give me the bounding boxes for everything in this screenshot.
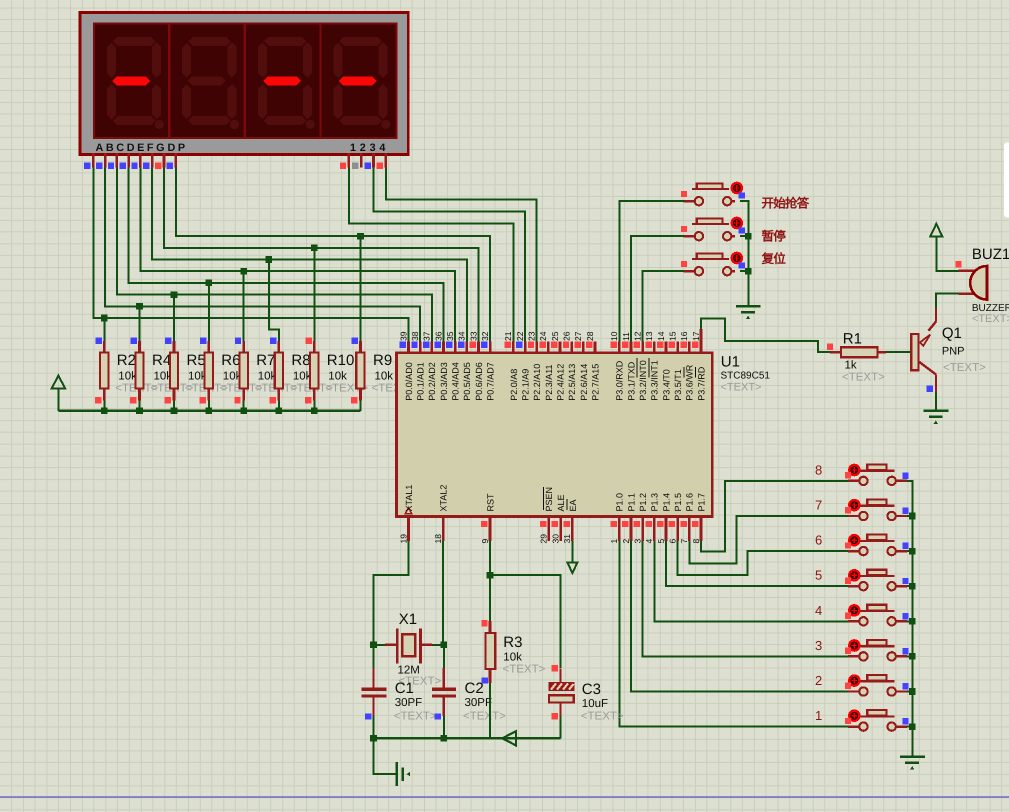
label R5 10k	[185, 352, 228, 395]
terminal arrow (down) at EA	[567, 563, 577, 574]
wire X1 right lead	[421, 644, 444, 646]
svg-text:4: 4	[644, 539, 654, 544]
U1 pin 9 RST	[480, 493, 496, 544]
U1 pin 12 P3.2/INT0	[632, 331, 648, 401]
display pin A	[84, 153, 93, 169]
square node SW2 right	[739, 227, 745, 233]
junction SW2/ground net	[745, 233, 752, 240]
svg-text:8: 8	[691, 539, 701, 544]
wire resistor R9 top to net SEG_DP	[360, 236, 362, 341]
square node KEY3 left	[845, 648, 851, 654]
wire net K5 (U1 pin5 to KEY5)	[666, 541, 848, 586]
svg-text:R7: R7	[256, 352, 275, 369]
U1 pin 18 XTAL2	[433, 485, 449, 544]
svg-text:PNP: PNP	[942, 346, 965, 358]
svg-text:13: 13	[644, 331, 654, 341]
wire net DIG3 (display pin3 to U1 pin22)	[374, 168, 526, 342]
U1 pin 22 P2.1/A9	[515, 331, 531, 401]
label button number 5	[815, 568, 822, 583]
svg-text:35: 35	[445, 331, 455, 341]
junction KEY6/common	[909, 548, 916, 555]
svg-text:P3.7/RD: P3.7/RD	[696, 366, 706, 401]
wire resistor R5 top to net SEG_C	[173, 295, 175, 341]
square node KEY2 left	[845, 683, 851, 689]
display pin 2	[352, 153, 361, 169]
label C1 30PF	[394, 680, 437, 723]
square node KEY2 right	[902, 683, 908, 689]
wire net KEY_RESET (U1 pin12 to SW3)	[643, 271, 685, 341]
svg-text:ALE: ALE	[556, 494, 566, 511]
display pin F	[143, 153, 152, 169]
U1 pin 39 P0.0/AD0	[398, 331, 414, 401]
svg-text:10k: 10k	[375, 371, 394, 383]
U1 pin 37 P0.2/AD2	[422, 331, 438, 401]
wire net SEG_A (display A to U1 pin 39)	[93, 168, 408, 342]
svg-text:P2.3/A11: P2.3/A11	[544, 364, 554, 400]
svg-text:30PF: 30PF	[465, 697, 493, 709]
svg-text:24: 24	[538, 331, 548, 341]
wire net DIG4 (display pin4 to U1 pin23)	[386, 168, 537, 342]
square node KEY5 left	[845, 577, 851, 583]
junction KEY3/common	[909, 653, 916, 660]
U1 pin 5 P1.4	[656, 493, 672, 544]
svg-text:<TEXT>: <TEXT>	[463, 711, 506, 723]
label R9 10k	[372, 352, 415, 395]
svg-text:P1.0: P1.0	[615, 493, 625, 512]
wire net VCC bus (resistor bottoms)	[58, 400, 360, 411]
junction SW3/ground net	[745, 268, 752, 275]
svg-text:P3.6/WR: P3.6/WR	[685, 364, 695, 401]
display pin 4	[377, 153, 386, 169]
svg-text:P0.6/AD6: P0.6/AD6	[474, 362, 484, 401]
square node C1 bottom	[365, 713, 371, 719]
junction XTAL2/X1	[441, 642, 448, 649]
wire KEY4 right stub	[907, 620, 912, 622]
U1 pin 33 P0.6/AD6	[468, 331, 484, 401]
wire net SEG_F (display F to U1 pin 34)	[152, 168, 467, 342]
wire KEY7 right stub	[907, 515, 912, 517]
svg-text:P0.0/AD0: P0.0/AD0	[404, 362, 414, 401]
wire X1 left lead	[374, 644, 398, 646]
push button SW1 (开始抢答)	[684, 183, 742, 206]
svg-text:C1: C1	[395, 680, 414, 697]
resistor R10 10k	[305, 337, 319, 410]
wire GND bus to ground symbol	[374, 738, 397, 774]
label R6 10k	[220, 352, 263, 395]
svg-text:R2: R2	[117, 352, 136, 369]
junction node SEG_G / R10	[311, 245, 318, 252]
display pin G	[155, 153, 164, 169]
resistor R3 10k	[486, 621, 496, 738]
U1 pin 23 P2.2/A10	[527, 331, 543, 401]
wire C1 top lead	[372, 668, 374, 688]
svg-text:<TEXT>: <TEXT>	[721, 382, 762, 394]
svg-text:P2.4/A12: P2.4/A12	[555, 364, 565, 401]
square node SW3 left	[681, 261, 687, 267]
junction VCC bus / R10	[311, 408, 318, 415]
junction VCC bus / R7	[240, 408, 247, 415]
svg-text:P3.2/INT0: P3.2/INT0	[638, 360, 648, 401]
resistor R7 10k	[234, 337, 248, 410]
svg-text:BUZ1: BUZ1	[972, 246, 1009, 263]
wire net BUZZ_CTL (U1 pin17 to R1)	[701, 318, 830, 352]
U1 pin 16 P3.6/WR	[679, 331, 695, 401]
ground symbol (buttons)	[736, 306, 761, 319]
wire resistor R10 top to net SEG_G	[313, 248, 315, 341]
svg-text:27: 27	[573, 331, 583, 341]
svg-text:<TEXT>: <TEXT>	[842, 372, 885, 384]
label 开始抢答	[762, 196, 810, 210]
U1 pin 6 P1.5	[667, 493, 683, 544]
label button number 4	[815, 603, 822, 618]
push button SW3 (复位)	[684, 253, 742, 276]
push button KEY5	[848, 570, 907, 591]
label R10 10k	[325, 352, 368, 395]
svg-text:开始抢答: 开始抢答	[762, 196, 810, 210]
resistor R1 1k	[827, 344, 886, 358]
svg-text:P2.7/A15: P2.7/A15	[590, 364, 600, 401]
wire net K1 (U1 pin1 to KEY1)	[619, 541, 848, 726]
svg-text:R8: R8	[291, 352, 310, 369]
resistor R5 10k	[165, 337, 179, 410]
U1 pin 3 P1.2	[632, 493, 648, 544]
resistor R8 10k	[270, 337, 284, 410]
svg-text:21: 21	[503, 331, 513, 341]
svg-text:XTAL1: XTAL1	[404, 485, 414, 512]
wire SW3 right stub	[740, 270, 748, 272]
svg-text:2: 2	[815, 673, 822, 688]
U1 pin 24 P2.3/A11	[538, 331, 554, 401]
junction KEY1/common	[909, 723, 916, 730]
U1 pin 30 ALE	[550, 494, 566, 543]
wire net K4 (U1 pin4 to KEY4)	[654, 541, 847, 621]
svg-text:10: 10	[609, 331, 619, 341]
resistor R9 10k	[351, 337, 365, 410]
svg-text:9: 9	[480, 539, 490, 544]
svg-text:15: 15	[667, 331, 677, 341]
svg-text:C2: C2	[465, 680, 484, 697]
svg-text:5: 5	[656, 539, 666, 544]
junction node SEG_DP / R9	[357, 233, 364, 240]
svg-text:R4: R4	[152, 352, 171, 369]
svg-text:26: 26	[562, 331, 572, 341]
U1 pin 28 P2.7/A15	[585, 331, 601, 401]
square node KEY3 right	[902, 648, 908, 654]
wire Q1 collector to BUZ1	[936, 294, 959, 308]
junction GND bus / C1	[370, 735, 377, 742]
svg-text:P0.1/AD1: P0.1/AD1	[416, 362, 426, 401]
square node KEY6 left	[845, 542, 851, 548]
power terminal (up arrow) at VCC bus	[52, 376, 66, 411]
label Q1 PNP	[942, 325, 986, 374]
svg-text:2: 2	[621, 539, 631, 544]
square node KEY7 right	[902, 508, 908, 514]
svg-text:复位: 复位	[761, 252, 787, 266]
junction KEY4/common	[909, 618, 916, 625]
wire KEY6 right stub	[907, 550, 912, 552]
U1 pin 2 P1.1	[621, 493, 637, 544]
svg-text:R1: R1	[843, 331, 862, 348]
U1 pin 26 P2.5/A13	[562, 331, 578, 401]
wire KEY3 right stub	[907, 655, 912, 657]
svg-text:25: 25	[550, 331, 560, 341]
svg-text:R9: R9	[373, 352, 392, 369]
svg-text:4: 4	[815, 603, 822, 618]
label U1 STC89C51	[721, 354, 771, 394]
svg-text:P2.2/A10: P2.2/A10	[532, 364, 542, 401]
U1 pin 31 EA	[562, 499, 578, 544]
svg-text:1: 1	[815, 708, 822, 723]
wire net KEY common to ground	[907, 481, 912, 756]
crystal X1 12M	[397, 629, 420, 664]
label R2 10k	[115, 352, 158, 395]
svg-text:P0.2/AD2: P0.2/AD2	[427, 362, 437, 401]
display pin 3	[364, 153, 373, 169]
svg-text:<TEXT>: <TEXT>	[943, 362, 986, 374]
label BUZ1 BUZZER	[972, 246, 1009, 325]
svg-text:39: 39	[398, 331, 408, 341]
wire net RST (U1 pin9 down)	[489, 541, 491, 621]
junction VCC bus / R5	[171, 408, 178, 415]
label button number 3	[815, 638, 822, 653]
svg-text:<TEXT>: <TEXT>	[394, 711, 437, 723]
svg-text:32: 32	[480, 331, 490, 341]
svg-text:33: 33	[468, 331, 478, 341]
svg-text:29: 29	[539, 534, 549, 544]
square node SW1 left	[681, 191, 687, 197]
U1 pin 8 P1.7	[691, 493, 707, 544]
sheet border blue line	[0, 796, 1009, 798]
wire resistor R4 top to net SEG_B	[139, 306, 141, 341]
wire net SEG_D (display D to U1 pin 36)	[129, 168, 444, 342]
square node R3 top	[481, 620, 487, 626]
svg-text:19: 19	[398, 534, 408, 544]
svg-text:STC89C51: STC89C51	[721, 371, 771, 382]
wire C2 top lead	[443, 668, 445, 688]
svg-text:<TEXT>: <TEXT>	[972, 313, 1009, 325]
wire Q1 emitter to ground	[935, 392, 937, 410]
wire resistor R2 top to net SEG_A	[103, 318, 105, 341]
svg-text:U1: U1	[721, 354, 740, 371]
push button KEY6	[848, 535, 907, 556]
wire net XTAL1 (U1 pin19 to X1/C1)	[374, 541, 409, 668]
svg-text:1k: 1k	[845, 360, 857, 372]
label 复位	[761, 252, 787, 266]
svg-text:6: 6	[815, 533, 822, 548]
svg-text:P1.1: P1.1	[626, 493, 636, 512]
svg-text:30PF: 30PF	[395, 697, 423, 709]
wire net SEG_B (display B to U1 pin 38)	[105, 168, 420, 342]
U1 pin 15 P3.5/T1	[667, 331, 683, 401]
square node KEY7 left	[845, 507, 851, 513]
svg-text:10k: 10k	[503, 652, 522, 664]
label R7 10k	[255, 352, 298, 395]
wire KEY1 right stub	[907, 726, 912, 728]
svg-text:38: 38	[410, 331, 420, 341]
svg-text:XTAL2: XTAL2	[439, 485, 449, 512]
U1 pin 36 P0.3/AD3	[433, 331, 449, 401]
svg-text:R3: R3	[503, 634, 522, 651]
svg-text:P1.4: P1.4	[661, 493, 671, 512]
U1 pin 35 P0.4/AD4	[445, 331, 461, 401]
svg-text:37: 37	[422, 331, 432, 341]
svg-text:P1.3: P1.3	[650, 493, 660, 512]
junction VCC bus / R6	[206, 408, 213, 415]
push button KEY1	[848, 710, 907, 731]
terminal arrow (left) on GND bus	[502, 731, 516, 745]
junction GND bus / C2	[441, 735, 448, 742]
wire KEY2 right stub	[907, 691, 912, 693]
wire net SEG_C (display C to U1 pin 37)	[117, 168, 432, 342]
U1 pin 11 P3.1/TXD	[621, 332, 637, 401]
svg-text:DP: DP	[168, 142, 188, 154]
svg-text:5: 5	[815, 568, 822, 583]
wire KEY5 right stub	[907, 585, 912, 587]
svg-text:1: 1	[609, 539, 619, 544]
junction node SEG_E / R7	[240, 268, 247, 275]
wire R1 to Q1 base	[886, 351, 911, 353]
junction KEY5/common	[909, 583, 916, 590]
svg-text:36: 36	[433, 331, 443, 341]
label button number 2	[815, 673, 822, 688]
square node C3 top	[552, 665, 558, 671]
display pin B	[96, 153, 105, 169]
square node KEY8 left	[845, 472, 851, 478]
U1 pin 7 P1.6	[679, 493, 695, 544]
push button KEY3	[848, 640, 907, 661]
svg-text:23: 23	[527, 331, 537, 341]
svg-text:P2.0/A8: P2.0/A8	[509, 369, 519, 401]
wire BUZ1 bottom lead	[959, 292, 975, 294]
junction node SEG_A / R2	[101, 315, 108, 322]
display pin 1	[340, 153, 349, 169]
svg-text:7: 7	[815, 498, 822, 513]
svg-text:C3: C3	[582, 681, 601, 698]
svg-text:17: 17	[691, 331, 701, 341]
transistor Q1 PNP	[911, 308, 936, 392]
wire net K6 (U1 pin6 to KEY6)	[678, 541, 848, 575]
label C2 30PF	[463, 680, 506, 723]
display pin E	[131, 153, 140, 169]
svg-text:22: 22	[515, 331, 525, 341]
7-segment display module	[80, 13, 408, 155]
square node KEY1 left	[845, 718, 851, 724]
push button KEY4	[848, 605, 907, 626]
svg-text:1234: 1234	[350, 142, 389, 154]
push button KEY7	[848, 500, 907, 521]
U1 pin 4 P1.3	[644, 493, 660, 544]
square node SW2 left	[681, 226, 687, 232]
svg-text:11: 11	[621, 332, 631, 341]
junction KEY2/common	[909, 688, 916, 695]
U1 pin 13 P3.3/INT1	[644, 331, 660, 401]
U1 pin 32 P0.7/AD7	[480, 331, 496, 401]
capacitor C1 30PF	[362, 689, 387, 738]
svg-text:3: 3	[815, 638, 822, 653]
label button number 7	[815, 498, 822, 513]
svg-text:28: 28	[585, 331, 595, 341]
svg-text:R6: R6	[221, 352, 240, 369]
wire net K2 (U1 pin2 to KEY2)	[631, 541, 848, 691]
square node C3 bottom	[552, 713, 558, 719]
svg-text:16: 16	[679, 331, 689, 341]
square node KEY5 right	[902, 578, 908, 584]
wire net K8 (U1 pin8 to KEY8)	[701, 481, 848, 552]
svg-text:<TEXT>: <TEXT>	[503, 664, 546, 676]
U1 pin 14 P3.4/T0	[656, 331, 672, 401]
resistor R2 10k	[95, 337, 109, 410]
square node R3 bottom	[482, 677, 488, 683]
junction node SEG_C / R5	[171, 291, 178, 298]
U1 pin 17 P3.7/RD	[691, 329, 707, 401]
U1 pin 1 P1.0	[609, 493, 625, 544]
square node KEY4 right	[902, 613, 908, 619]
U1 pin 21 P2.0/A8	[503, 331, 519, 401]
svg-text:7: 7	[679, 539, 689, 544]
svg-text:暂停: 暂停	[762, 230, 787, 244]
svg-text:ABCDEFG: ABCDEFG	[96, 142, 168, 154]
square node C2 bottom	[434, 713, 440, 719]
label C3 10uF	[581, 681, 624, 723]
square node BUZ1 top	[955, 261, 961, 267]
U1 pin 25 P2.4/A12	[550, 331, 566, 401]
U1 pin 29 PSEN	[539, 487, 555, 544]
svg-text:30: 30	[550, 534, 560, 544]
svg-text:18: 18	[433, 534, 443, 544]
op IC U1 STC89C51 body	[397, 353, 713, 517]
ground symbol (Q1)	[924, 411, 949, 424]
capacitor C2 30PF	[432, 689, 456, 738]
wire resistor R6 top to net SEG_D	[208, 283, 210, 341]
svg-text:P3.3/INT1: P3.3/INT1	[650, 360, 660, 401]
wire net GND bus (bottom)	[374, 737, 561, 739]
U1 pin 19 XTAL1	[398, 485, 414, 544]
square node KEY8 right	[902, 473, 908, 479]
ground symbol (bottom left, rotated)	[397, 762, 410, 786]
wire net K7 (U1 pin7 to KEY7)	[689, 516, 847, 563]
wire net KEY_PAUSE (U1 pin11 to SW2)	[631, 236, 684, 341]
label button number 1	[815, 708, 822, 723]
U1 pin 10 P3.0/RXD	[609, 331, 625, 401]
buzzer BUZ1	[970, 266, 987, 300]
svg-text:P1.5: P1.5	[673, 493, 683, 512]
capacitor C3 10uF (electrolytic)	[549, 668, 574, 738]
svg-text:EA: EA	[568, 499, 578, 511]
svg-text:R10: R10	[327, 352, 355, 369]
wire net SEG_E (display E to U1 pin 35)	[140, 168, 455, 342]
svg-text:X1: X1	[399, 611, 417, 628]
junction VCC bus / R4	[136, 408, 143, 415]
junction node SEG_F / R8	[266, 256, 273, 263]
ground symbol (small buttons)	[900, 757, 925, 770]
svg-text:3: 3	[632, 539, 642, 544]
label X1 12M	[398, 611, 442, 688]
wire net XTAL2 (U1 pin18 to X1/C2)	[442, 541, 445, 668]
U1 pin 34 P0.5/AD5	[457, 331, 473, 401]
svg-text:P3.1/TXD: P3.1/TXD	[626, 361, 636, 401]
svg-text:14: 14	[656, 331, 666, 341]
label button number 6	[815, 533, 822, 548]
square node KEY1 right	[902, 718, 908, 724]
svg-text:P1.7: P1.7	[696, 493, 706, 512]
svg-text:10uF: 10uF	[582, 698, 608, 710]
label R8 10k	[290, 352, 333, 395]
svg-text:P1.2: P1.2	[638, 493, 648, 512]
push button KEY2	[848, 675, 907, 696]
square node Q1 emitter	[927, 386, 933, 392]
wire net EA (U1 pin31 down)	[571, 541, 573, 562]
wire resistor R7 top to net SEG_E	[243, 271, 245, 341]
